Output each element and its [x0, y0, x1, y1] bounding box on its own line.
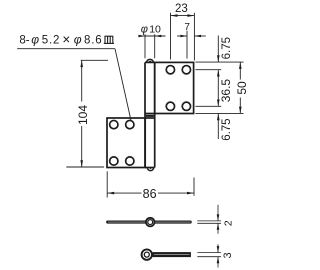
hole top plate row1 col2 [182, 66, 190, 74]
pin bottom dome [147, 168, 153, 171]
dim 23 extension left [170, 13, 172, 60]
pin top edge [145, 61, 155, 63]
arrow phi10 left [138, 35, 145, 37]
right chain extension plate top [195, 61, 243, 63]
pin top dome [147, 59, 154, 62]
side view 1 (assembled, thickness 2) [106, 218, 192, 227]
arrow 3 down [217, 246, 220, 253]
dim 6.75 bottom line [217, 113, 219, 139]
dim 2 line upper [217, 205, 219, 221]
dim 3 extension bottom [197, 256, 221, 258]
svg-text:36.5: 36.5 [219, 79, 233, 103]
svg-text:86: 86 [143, 187, 157, 201]
pin bottom edge [145, 167, 155, 169]
arrow 36.5 down [217, 100, 220, 107]
dim 2 extension top [197, 220, 221, 222]
svg-text:×: × [62, 32, 70, 47]
svg-text:φ: φ [31, 33, 39, 47]
dim 86 extension left [106, 171, 108, 197]
arrow 3 up [217, 257, 220, 264]
dim phi10 line [139, 35, 166, 37]
right chain extension hole row2 [195, 105, 221, 107]
svg-text:3: 3 [222, 252, 234, 258]
bottom plate [107, 118, 145, 168]
dim 3 line lower [217, 257, 219, 268]
dim 104 line lower [81, 126, 83, 167]
dim 2 line lower [217, 223, 219, 234]
arrow 2 down [217, 214, 220, 221]
dim phi10 extension left [144, 34, 146, 58]
knuckle joint band [146, 115, 154, 117]
right chain extension plate bottom [195, 112, 243, 114]
dim 23 line [171, 15, 195, 17]
dim 3 extension top [197, 252, 221, 254]
arrow 7 left [180, 35, 187, 37]
side1 bar [106, 221, 192, 224]
pin left edge [144, 62, 146, 167]
hole bottom plate row1 col2 [126, 120, 134, 128]
pin top wedge [149, 61, 152, 63]
dim 2 extension bottom [197, 222, 221, 224]
right chain extension hole row1 [195, 69, 221, 71]
dim 7 extension (hole col2 centre) [186, 31, 188, 59]
dim 36.5 line [217, 70, 219, 107]
arrow 6.75 bottom up [217, 113, 220, 120]
svg-text:φ: φ [74, 33, 82, 47]
top plate [155, 62, 194, 113]
countersink symbol [104, 36, 114, 43]
svg-text:6.75: 6.75 [221, 37, 233, 59]
svg-text:104: 104 [76, 105, 90, 125]
arrow 50 up [239, 62, 242, 69]
arrow 104 down [80, 160, 83, 167]
side1 knuckle inner hole [148, 220, 153, 225]
side2 knuckle inner hole [144, 252, 149, 257]
arrow 7 right [194, 35, 201, 37]
dim 86 line left [107, 192, 141, 194]
dim 7 left arrow tail [177, 35, 187, 37]
dim 50 line lower [239, 98, 241, 114]
dim 86 extension right [193, 178, 195, 196]
dim 3 line upper [217, 244, 219, 252]
arrow 50 down [239, 107, 242, 114]
arrow 36.5 up [217, 70, 220, 77]
leader diagonal [115, 49, 131, 121]
dim 104 line upper [81, 60, 83, 101]
arrow 86 right [187, 192, 194, 195]
hole bottom plate row1 col1 [110, 120, 118, 128]
svg-text:23: 23 [175, 3, 188, 15]
arrow phi10 right [155, 35, 162, 37]
arrow 86 left [107, 192, 114, 195]
hole bottom plate row2 col1 [110, 157, 118, 165]
dim 6.75 top line [217, 36, 219, 63]
svg-text:8.6: 8.6 [84, 35, 102, 47]
side2 bar [153, 252, 191, 257]
hole bottom plate row2 col2 [126, 157, 134, 165]
hole top plate row1 col1 [166, 66, 174, 74]
arrow 23 right [187, 14, 194, 17]
side view 2 (single leaf, thickness 3) [142, 249, 191, 259]
arrow 23 left [171, 14, 178, 17]
side2 bar core line [154, 254, 190, 256]
pin bottom wedge [149, 168, 151, 169]
side1 knuckle outer ring [146, 218, 155, 227]
svg-text:10: 10 [149, 24, 161, 36]
side1 bar core line [108, 221, 191, 223]
dim 104 top extension [81, 59, 108, 61]
arrow 104 up [80, 60, 83, 67]
svg-text:6.75: 6.75 [221, 118, 233, 140]
dim 50 line upper [239, 62, 241, 79]
svg-text:50: 50 [235, 81, 249, 95]
dim 104 bottom extension [66, 166, 104, 168]
svg-text:5.2: 5.2 [42, 35, 60, 47]
dim 86 line right [158, 192, 194, 194]
hole top plate row2 col1 [166, 102, 174, 110]
svg-text:2: 2 [223, 220, 235, 226]
arrow 6.75 top down [217, 55, 220, 62]
dim 23 extension right [193, 13, 195, 61]
leader underline [17, 48, 115, 50]
bottom plate top edge across pin [145, 117, 155, 119]
pin right edge [154, 62, 156, 167]
svg-text:8-: 8- [19, 35, 29, 47]
svg-text:φ: φ [141, 24, 148, 36]
side2 knuckle outer ring [142, 249, 152, 259]
arrow 2 up [217, 223, 220, 230]
dim 7 right arrow tail [194, 35, 205, 37]
top plate bottom edge across pin [145, 113, 155, 115]
svg-text:7: 7 [184, 22, 190, 33]
dim phi10 extension right [154, 34, 156, 58]
hole top plate row2 col2 [182, 102, 190, 110]
